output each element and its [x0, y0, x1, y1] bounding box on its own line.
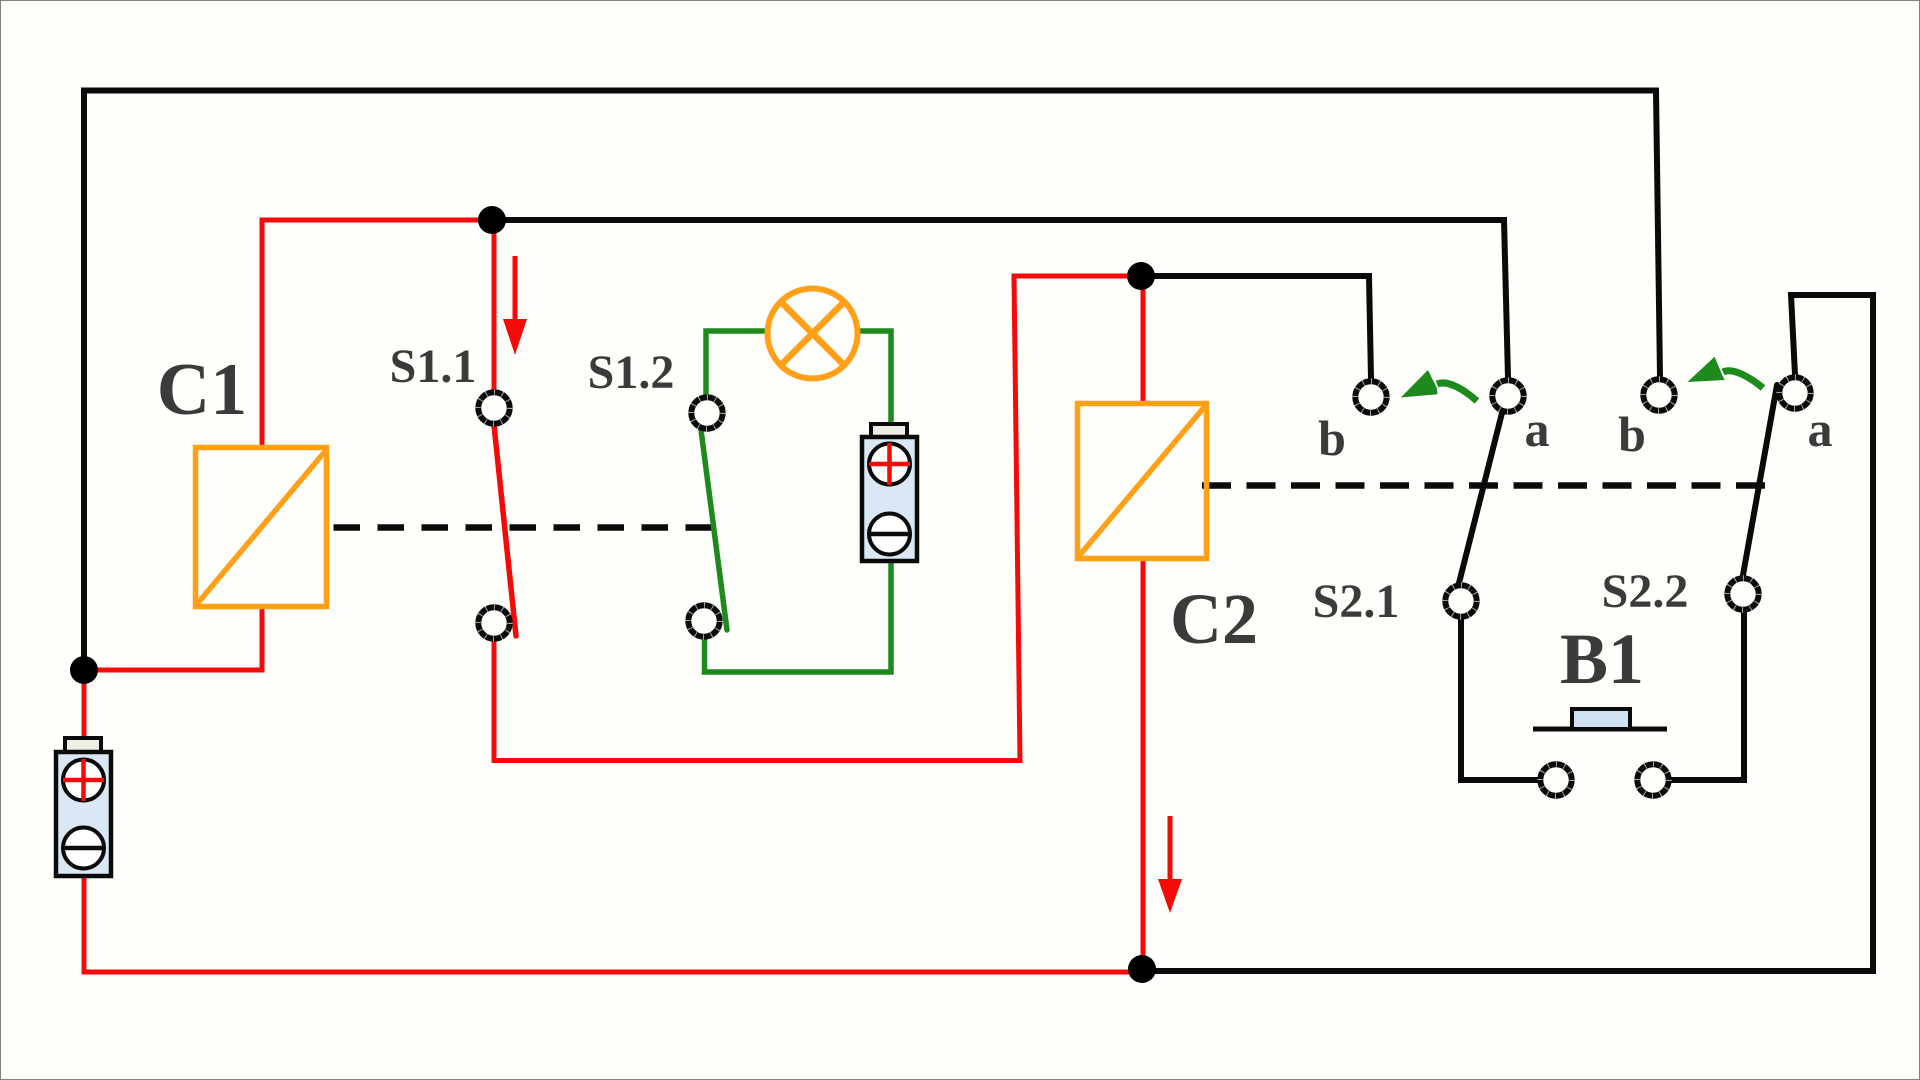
svg-text:S2.2: S2.2: [1602, 565, 1689, 618]
svg-text:a: a: [1525, 401, 1550, 457]
svg-text:S1.2: S1.2: [588, 346, 675, 399]
svg-text:a: a: [1808, 401, 1833, 457]
svg-text:C1: C1: [157, 349, 247, 431]
svg-text:B1: B1: [1560, 619, 1644, 699]
svg-text:S2.1: S2.1: [1313, 575, 1400, 628]
svg-text:S1.1: S1.1: [390, 340, 477, 393]
svg-text:b: b: [1618, 406, 1646, 462]
svg-text:b: b: [1318, 410, 1346, 466]
svg-text:C2: C2: [1170, 579, 1258, 659]
